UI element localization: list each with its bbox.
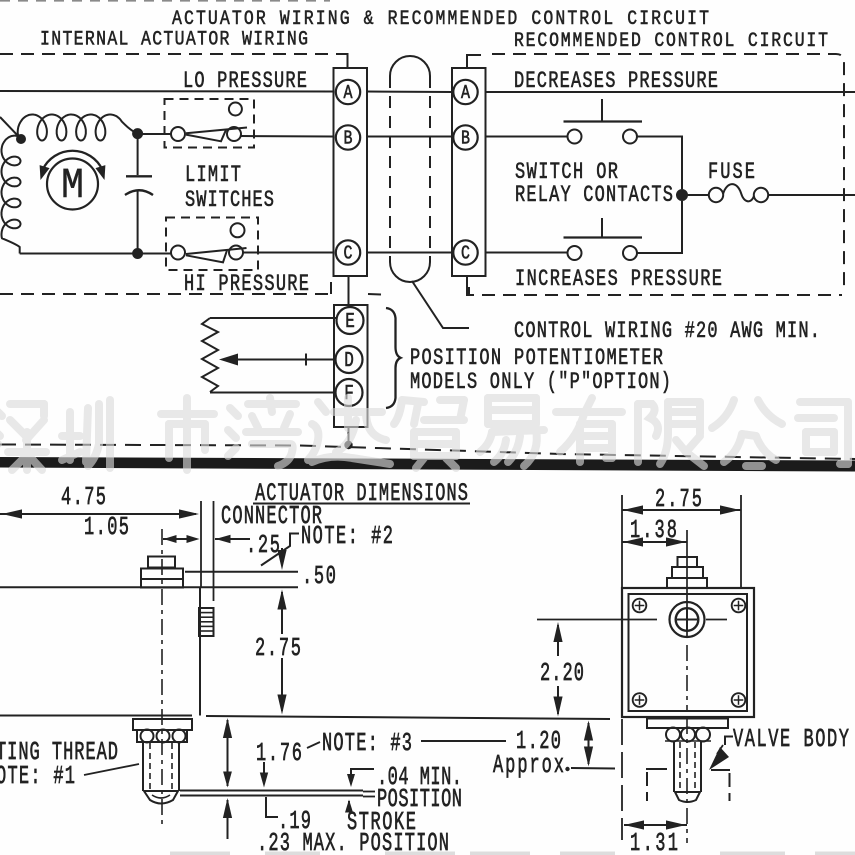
svg-text:1.76: 1.76 [256,739,302,768]
svg-text:B: B [344,129,353,150]
svg-text:2.75: 2.75 [255,634,301,663]
svg-text:B: B [461,129,470,150]
svg-text:DECREASES PRESSURE: DECREASES PRESSURE [514,69,718,95]
svg-text:RELAY CONTACTS: RELAY CONTACTS [515,183,673,209]
svg-text:INTERNAL ACTUATOR WIRING: INTERNAL ACTUATOR WIRING [40,28,308,51]
svg-text:VALVE BODY: VALVE BODY [733,725,849,754]
svg-text:A: A [344,83,353,104]
svg-text:RECOMMENDED CONTROL CIRCUIT: RECOMMENDED CONTROL CIRCUIT [514,30,828,53]
svg-text:NOTE: #2: NOTE: #2 [301,522,393,551]
svg-text:E: E [345,310,355,334]
svg-text:LIMIT: LIMIT [185,163,241,189]
svg-text:1.05: 1.05 [84,513,129,542]
svg-text:INCREASES PRESSURE: INCREASES PRESSURE [515,267,722,293]
svg-text:D: D [344,349,354,373]
svg-text:CONTROL WIRING #20 AWG MIN.: CONTROL WIRING #20 AWG MIN. [514,319,820,345]
svg-text:POSITION POTENTIOMETER: POSITION POTENTIOMETER [410,346,663,372]
svg-text:LO PRESSURE: LO PRESSURE [183,69,307,95]
svg-text:HI PRESSURE: HI PRESSURE [184,272,309,298]
svg-text:M: M [61,162,84,211]
svg-text:C: C [461,244,470,265]
svg-text:4.75: 4.75 [61,483,106,512]
svg-text:A: A [461,83,470,104]
svg-text:SWITCHES: SWITCHES [185,188,274,214]
svg-text:2.20: 2.20 [540,659,584,688]
svg-text:.50: .50 [302,562,336,591]
svg-text:C: C [344,244,353,265]
svg-text:NOTE: #3: NOTE: #3 [322,729,412,758]
svg-text:MODELS ONLY ("P"OPTION): MODELS ONLY ("P"OPTION) [410,370,671,396]
